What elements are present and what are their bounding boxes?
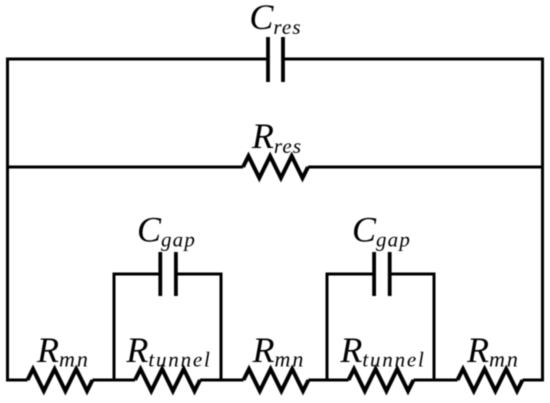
- wire bottom segment 4: [309, 379, 349, 382]
- resistor R_mn 2 zigzag: [244, 369, 309, 391]
- wire bottom segment 6: [523, 379, 544, 382]
- wire left vertical: [6, 58, 9, 382]
- svg-text:Rmn: Rmn: [466, 330, 520, 372]
- wire bottom segment 2: [93, 379, 136, 382]
- wire box1 left vertical: [113, 273, 116, 381]
- wire box2 top-left (to C_gap plate): [326, 273, 374, 276]
- wire right vertical: [541, 58, 544, 382]
- svg-text:Cres: Cres: [249, 0, 301, 39]
- wire box1 right vertical: [220, 273, 223, 381]
- wire box1 top-right (from C_gap plate): [176, 273, 223, 276]
- wire top-left horizontal (to C_res left plate): [7, 58, 268, 61]
- svg-text:Rmn: Rmn: [252, 330, 306, 372]
- capacitor C_gap 2 right plate: [388, 252, 392, 296]
- capacitor C_res right plate: [281, 37, 285, 82]
- svg-text:Rmn: Rmn: [36, 330, 90, 372]
- wire bottom segment 5: [414, 379, 458, 382]
- wire middle-right horizontal (from R_res): [308, 166, 543, 169]
- resistor R_res zigzag: [243, 156, 308, 178]
- svg-text:Rtunnel: Rtunnel: [339, 330, 425, 372]
- svg-text:Cgap: Cgap: [352, 210, 411, 252]
- svg-text:Rtunnel: Rtunnel: [125, 330, 211, 372]
- wire middle-left horizontal (to R_res): [7, 166, 243, 169]
- svg-text:Rres: Rres: [251, 116, 302, 158]
- wire top-right horizontal (from C_res right plate): [283, 58, 543, 61]
- wire bottom segment 3: [200, 379, 244, 382]
- resistor R_mn 3 zigzag: [458, 369, 523, 391]
- svg-text:Cgap: Cgap: [137, 210, 196, 252]
- wire box2 right vertical: [433, 273, 436, 381]
- capacitor C_gap 1 right plate: [174, 252, 178, 296]
- capacitor C_res left plate: [266, 37, 270, 82]
- capacitor C_gap 2 left plate: [372, 252, 376, 296]
- resistor R_tunnel 2 zigzag: [349, 369, 414, 391]
- resistor R_mn 1 zigzag: [28, 369, 93, 391]
- wire box2 top-right (from C_gap plate): [389, 273, 436, 276]
- wire bottom segment 1: [7, 379, 28, 382]
- wire box2 left vertical: [326, 273, 329, 381]
- resistor R_tunnel 1 zigzag: [135, 369, 200, 391]
- capacitor C_gap 1 left plate: [158, 252, 162, 296]
- wire box1 top-left (to C_gap plate): [113, 273, 161, 276]
